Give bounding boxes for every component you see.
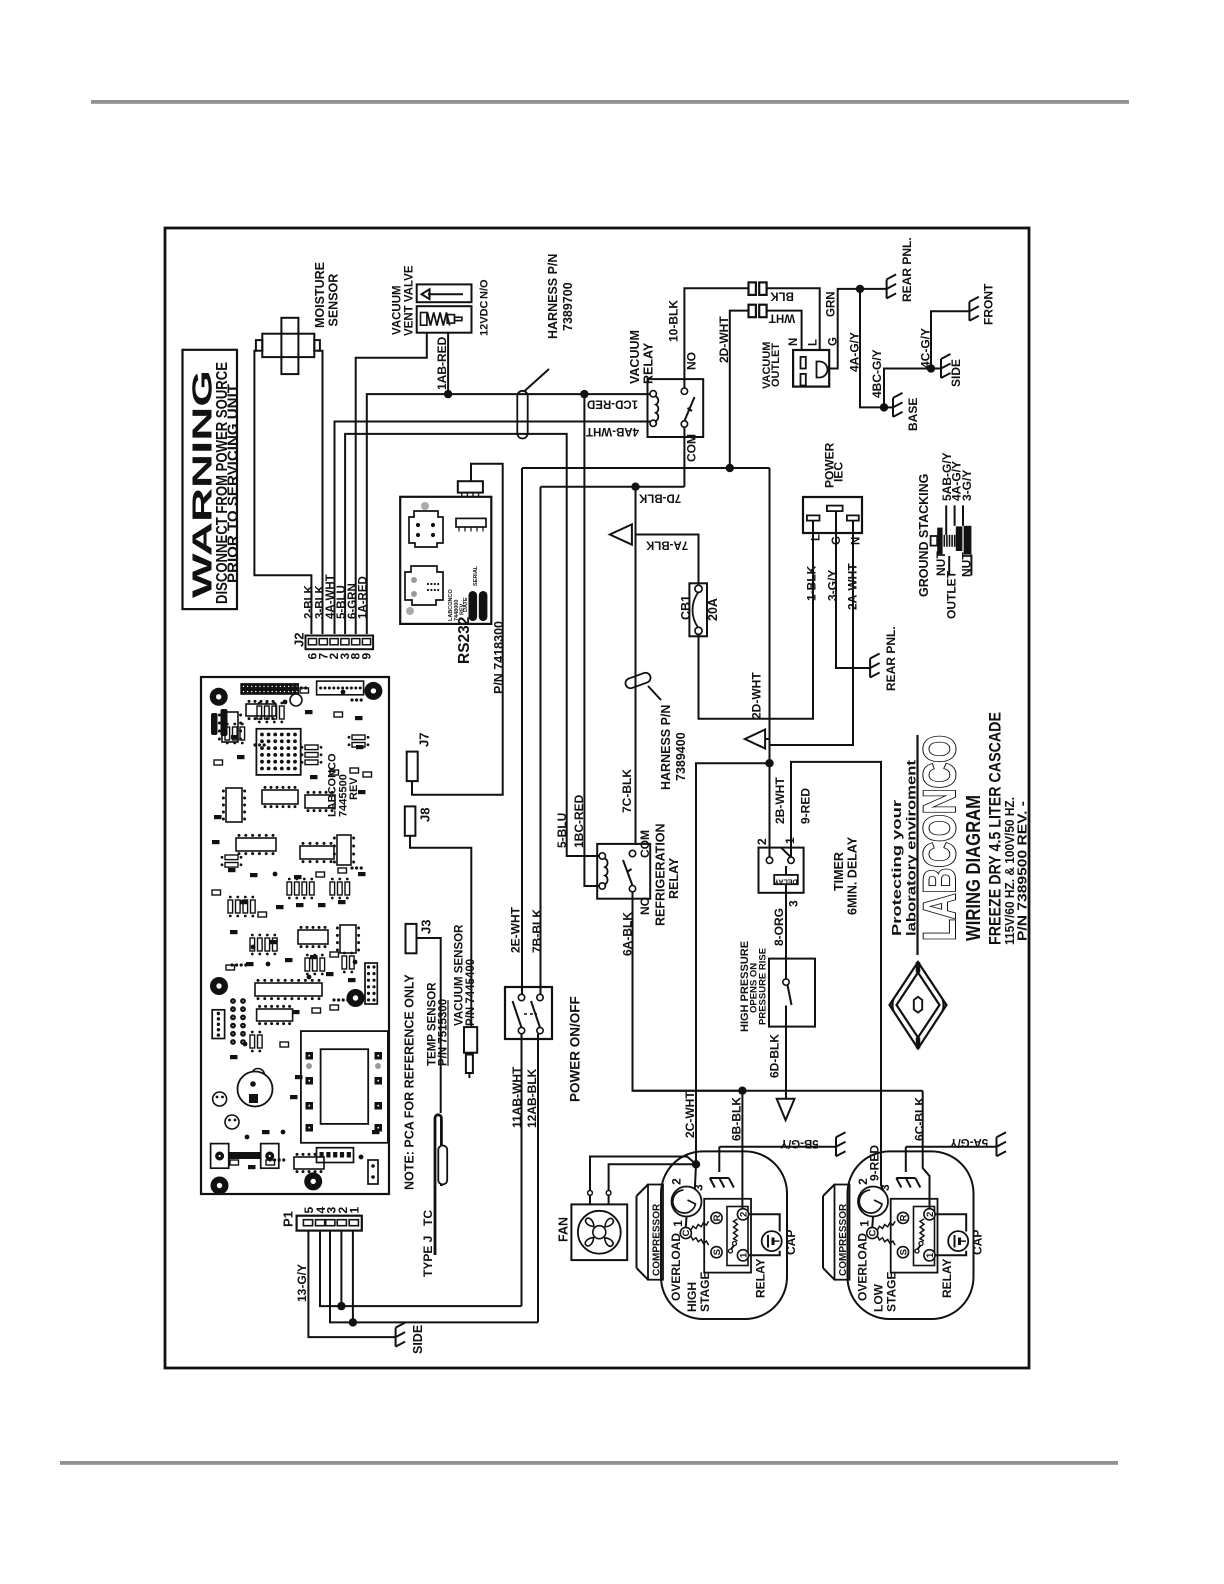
vacuum relay arm	[684, 397, 694, 421]
svg-text:2: 2	[755, 838, 769, 845]
wire P1 pin3 to 12AB	[330, 1231, 538, 1323]
svg-text:5A-G/Y: 5A-G/Y	[950, 1136, 989, 1148]
wire 2A-WHT from IEC N	[770, 521, 854, 745]
svg-text:2E-WHT: 2E-WHT	[509, 906, 523, 953]
wire 9-RED timer to low stage	[791, 762, 886, 1196]
svg-text:TYPE J: TYPE J	[421, 1236, 435, 1277]
svg-text:TC: TC	[421, 1210, 435, 1226]
svg-text:N: N	[851, 537, 863, 545]
relay switch	[919, 1242, 923, 1246]
wire P1 pin4 to 11AB	[320, 1231, 522, 1307]
wire 6C-BLK	[923, 1091, 930, 1209]
svg-text:OUTLET: OUTLET	[945, 570, 959, 619]
wire 2D-WHT vertical to arrow	[769, 468, 771, 763]
wire 4C-G/Y up	[931, 311, 969, 368]
svg-text:1A-RED: 1A-RED	[358, 576, 370, 619]
wire 4A-G/Y down	[860, 289, 884, 408]
svg-text:FRONT: FRONT	[982, 283, 996, 325]
svg-text:COM: COM	[685, 434, 699, 462]
compressor barrel HIGH STAGE	[661, 1151, 787, 1319]
svg-text:12AB-BLK: 12AB-BLK	[525, 1068, 539, 1128]
wire to rear panel ground	[860, 288, 887, 290]
wire P1 pin2	[340, 1231, 342, 1307]
wire to side ground	[931, 368, 941, 370]
PCB top-left bars	[211, 713, 218, 735]
svg-text:7B-BLK: 7B-BLK	[530, 909, 544, 953]
svg-text:P/N 7389500 REV. -: P/N 7389500 REV. -	[1015, 801, 1030, 941]
wire 6D-BLK	[785, 1027, 787, 1099]
wire 7D-BLK line	[541, 486, 685, 488]
power switch S1	[505, 987, 552, 1039]
PCB left 5-hole connector	[212, 1010, 224, 1039]
svg-text:6C-BLK: 6C-BLK	[913, 1097, 927, 1141]
harness sleeve oval 7389400	[624, 671, 652, 689]
svg-text:REFRIGERATION: REFRIGERATION	[654, 823, 668, 926]
connector J3	[406, 924, 417, 953]
svg-text:REAR PNL.: REAR PNL.	[900, 237, 914, 302]
PCB terminal blocks bottom-left	[211, 1144, 229, 1169]
node junction rail1 to trunk1	[580, 390, 588, 398]
svg-text:N/O: N/O	[479, 279, 491, 299]
compressor motor circle	[672, 1187, 702, 1217]
terminal S	[897, 1247, 908, 1258]
vacuum vent valve V1 arrow section	[417, 284, 472, 302]
svg-text:1: 1	[738, 1252, 749, 1258]
circuit breaker CB1	[689, 583, 707, 636]
run capacitor	[749, 1214, 780, 1231]
fan leads	[588, 1191, 593, 1196]
svg-text:IEC: IEC	[832, 462, 846, 482]
wire 1-BLK CB1 to IEC L	[699, 521, 814, 719]
svg-text:DATE: DATE	[463, 597, 469, 612]
timer TD1	[759, 848, 804, 893]
svg-text:REV: REV	[348, 777, 360, 800]
PCB dot clusters	[290, 686, 293, 689]
compressor tag	[648, 1185, 663, 1280]
svg-text:1-BLK: 1-BLK	[805, 565, 819, 601]
wire 11AB-WHT	[521, 1034, 523, 1306]
run capacitor	[935, 1214, 966, 1231]
ground SIDE bottom	[396, 1323, 406, 1347]
high pressure switch	[769, 959, 815, 1027]
vacuum relay coil	[650, 391, 656, 397]
PCB P1 footprint	[317, 1148, 354, 1163]
vacuum sensor bulb	[464, 1027, 477, 1053]
svg-text:4AB-WHT: 4AB-WHT	[586, 425, 639, 437]
svg-text:1BC-RED: 1BC-RED	[572, 794, 586, 848]
svg-text:SERIAL: SERIAL	[473, 565, 479, 586]
svg-text:NOTE: PCA FOR REFERENCE ONLY: NOTE: PCA FOR REFERENCE ONLY	[403, 974, 417, 1190]
PCB transistors	[213, 1092, 227, 1106]
RS232 RJ jack upper	[409, 511, 443, 547]
start relay box	[704, 1199, 751, 1273]
compressor tag	[835, 1185, 850, 1280]
wire 2E-WHT trunk	[521, 468, 523, 997]
vacuum relay K1 box	[648, 379, 704, 437]
svg-text:R: R	[712, 1214, 723, 1221]
wire 6A-BLK	[633, 892, 743, 1091]
relay resistor	[734, 1219, 738, 1241]
wire 7C-BLK trunk	[635, 487, 637, 845]
svg-text:J7: J7	[417, 733, 432, 747]
svg-text:STAGE: STAGE	[884, 1272, 898, 1312]
PCB top header strips	[240, 683, 299, 695]
ground BASE	[893, 393, 903, 417]
svg-text:6A-BLK: 6A-BLK	[621, 912, 635, 956]
svg-text:SIDE: SIDE	[949, 359, 963, 387]
svg-text:P/N 7445400: P/N 7445400	[465, 959, 477, 1026]
svg-text:NUT: NUT	[960, 552, 974, 577]
wire 6B-BLK	[741, 1091, 743, 1209]
svg-text:L: L	[807, 339, 819, 346]
svg-text:RELAY: RELAY	[667, 857, 681, 899]
refrigeration relay K2	[597, 844, 650, 899]
svg-text:6B-BLK: 6B-BLK	[730, 1097, 744, 1141]
overload heaters zigzag	[877, 1221, 895, 1230]
svg-text:RS232: RS232	[456, 617, 473, 664]
relay terminal 2	[737, 1209, 748, 1220]
wire 10-BLK relay NO up	[684, 288, 748, 388]
PCB pair-dot stack	[230, 998, 236, 1004]
svg-text:7A-BLK: 7A-BLK	[645, 539, 688, 551]
svg-text:5-BLU: 5-BLU	[555, 813, 569, 848]
vacuum outlet receptacle	[793, 350, 829, 387]
wire 4A/4AB-WHT rail	[335, 422, 651, 635]
svg-text:RELAY: RELAY	[642, 342, 656, 384]
svg-text:VACUUM SENSOR: VACUUM SENSOR	[454, 924, 466, 1026]
node junction 2D on line C	[726, 464, 734, 472]
svg-text:VENT VALVE: VENT VALVE	[404, 265, 416, 336]
svg-text:12VDC: 12VDC	[479, 300, 491, 336]
wire moisture sensor right lead	[318, 351, 323, 634]
wire J8 to vacuum sensor	[410, 836, 471, 1027]
svg-text:3: 3	[692, 1184, 706, 1191]
compressor barrel LOW STAGE	[848, 1151, 974, 1319]
svg-text:2: 2	[856, 1178, 870, 1185]
svg-text:P1: P1	[281, 1211, 296, 1227]
svg-text:COMPRESSOR: COMPRESSOR	[652, 1203, 663, 1276]
ground REAR PNL.	[887, 274, 897, 298]
svg-text:7389700: 7389700	[561, 282, 575, 331]
svg-text:4BC-G/Y: 4BC-G/Y	[870, 349, 884, 398]
RS232 board	[400, 497, 491, 624]
terminal C	[685, 1217, 688, 1228]
svg-text:S: S	[712, 1249, 723, 1255]
connector J8	[405, 806, 416, 835]
svg-text:BLK: BLK	[769, 290, 793, 302]
ground SIDE	[941, 354, 951, 378]
moisture sensor MS1	[262, 334, 314, 357]
svg-text:VACUUM: VACUUM	[628, 330, 642, 384]
ground stacking callouts	[945, 505, 947, 534]
warning box	[183, 350, 238, 609]
node junction 7D	[631, 483, 639, 491]
connector P1	[297, 1216, 362, 1231]
svg-text:13-G/Y: 13-G/Y	[295, 1264, 309, 1302]
wire 2C-WHT	[696, 763, 770, 1164]
relay resistor	[920, 1219, 924, 1241]
svg-text:CB1: CB1	[679, 595, 693, 620]
wire 1A-RED rail	[367, 394, 650, 634]
svg-text:REAR PNL.: REAR PNL.	[884, 626, 898, 691]
wire 1AB-RED valve right lead	[447, 333, 449, 394]
wire WHT jumper to outlet N	[767, 311, 802, 350]
svg-text:DELAY: DELAY	[774, 878, 797, 885]
node ground junction A	[856, 285, 864, 293]
wire to base ground	[884, 406, 893, 408]
overload heaters zigzag	[691, 1221, 709, 1230]
svg-text:FAN: FAN	[557, 1217, 571, 1242]
wire 12AB-BLK	[537, 1034, 539, 1323]
ground inside barrel	[718, 1147, 720, 1172]
ground REAR PNL 2	[870, 654, 880, 678]
PCB main board	[201, 677, 389, 1194]
svg-text:SENSOR: SENSOR	[327, 274, 341, 327]
svg-text:R: R	[898, 1214, 909, 1221]
terminal S	[711, 1247, 722, 1258]
node ground junction B	[880, 403, 888, 411]
wire 7B-BLK trunk	[540, 487, 542, 997]
wire P1 pin5 13-G/Y to side ground	[308, 1231, 395, 1338]
svg-text:2: 2	[738, 1212, 749, 1217]
RS232 dither pads	[421, 502, 429, 510]
wire moisture sensor left lead	[254, 351, 311, 634]
PCB QFP U7	[256, 729, 300, 775]
svg-text:9: 9	[360, 653, 374, 660]
wire 2B-WHT	[769, 763, 771, 860]
svg-text:NO: NO	[685, 352, 699, 370]
svg-text:2D-WHT: 2D-WHT	[750, 672, 764, 719]
PCB mounting holes	[210, 688, 228, 706]
svg-text:P/N 7418300: P/N 7418300	[492, 621, 506, 694]
timer DELAY box	[774, 875, 798, 884]
vacuum relay contacts	[681, 388, 687, 394]
svg-text:CAP: CAP	[971, 1230, 985, 1255]
RS232 header J5	[456, 518, 486, 527]
svg-text:HARNESS P/N: HARNESS P/N	[659, 705, 673, 790]
svg-text:3-G/Y: 3-G/Y	[960, 470, 974, 501]
svg-text:N: N	[788, 338, 800, 346]
wire J7 stub	[411, 781, 413, 795]
svg-text:1: 1	[925, 1252, 936, 1258]
svg-text:POWER ON/OFF: POWER ON/OFF	[568, 996, 583, 1102]
ground wire 5-G/Y	[719, 1146, 836, 1148]
svg-text:2: 2	[670, 1178, 684, 1185]
terminal C	[871, 1217, 874, 1228]
PCB LCD block	[301, 1031, 388, 1143]
svg-text:3-G/Y: 3-G/Y	[826, 570, 840, 601]
disconnect jumper WHT	[749, 305, 756, 318]
drawing border frame	[165, 228, 1029, 1368]
connector J7	[407, 752, 418, 782]
arrow 6D-BLK down	[777, 1099, 795, 1120]
svg-text:7C-BLK: 7C-BLK	[620, 769, 634, 813]
svg-text:3: 3	[878, 1184, 892, 1191]
svg-text:OVERLOAD: OVERLOAD	[856, 1233, 870, 1301]
compressor motor circle	[858, 1187, 888, 1217]
svg-text:2D-WHT: 2D-WHT	[717, 316, 731, 363]
ground stacking bolt	[931, 536, 938, 546]
logo rule line	[916, 735, 918, 955]
svg-text:GRN: GRN	[826, 291, 838, 317]
svg-text:MOISTURE: MOISTURE	[313, 262, 327, 328]
svg-text:HARNESS P/N: HARNESS P/N	[546, 254, 560, 339]
svg-text:6MIN. DELAY: 6MIN. DELAY	[846, 836, 860, 915]
svg-text:STAGE: STAGE	[698, 1272, 712, 1312]
svg-text:11AB-WHT: 11AB-WHT	[510, 1066, 524, 1128]
relay terminal 2	[924, 1209, 935, 1220]
svg-text:1: 1	[783, 837, 797, 844]
svg-text:LABCONCO: LABCONCO	[914, 735, 965, 941]
PCB right edge connectors	[365, 963, 377, 1004]
start relay box	[891, 1199, 938, 1273]
svg-text:S: S	[898, 1249, 909, 1255]
svg-text:7D-BLK: 7D-BLK	[638, 492, 681, 504]
harness callout 2	[648, 686, 661, 700]
svg-text:9-RED: 9-RED	[799, 788, 813, 824]
wire line C net2	[522, 467, 770, 469]
page top rule	[91, 100, 1129, 104]
svg-text:PRESSURE RISE: PRESSURE RISE	[758, 948, 769, 1025]
node junction pin1	[349, 1318, 357, 1326]
fan	[571, 1204, 627, 1260]
svg-text:VACUUM: VACUUM	[392, 285, 404, 335]
svg-text:SIDE: SIDE	[411, 1325, 425, 1354]
temp sensor thermowell	[435, 1115, 441, 1255]
svg-text:2A-WHT: 2A-WHT	[846, 563, 860, 610]
PCB small parts scatter	[231, 735, 239, 739]
node ground junction C	[927, 364, 935, 372]
wire bus 6 net	[633, 1090, 923, 1092]
svg-text:Protecting your: Protecting your	[889, 800, 904, 936]
disconnect jumper BLK	[749, 282, 756, 295]
node junction 6B	[738, 1087, 746, 1095]
wire BLK jumper to outlet L	[767, 288, 820, 350]
svg-text:10-BLK: 10-BLK	[667, 300, 681, 342]
ground FRONT	[969, 297, 979, 321]
svg-text:7389400: 7389400	[674, 732, 688, 781]
arrow 2D-WHT	[745, 730, 765, 749]
svg-text:COMPRESSOR: COMPRESSOR	[838, 1203, 849, 1276]
svg-text:4C-G/Y: 4C-G/Y	[919, 328, 933, 368]
node junction net2 hub	[765, 759, 773, 767]
svg-text:1: 1	[348, 1207, 362, 1214]
terminal R	[711, 1212, 722, 1223]
PCB DIP packages	[222, 712, 238, 742]
svg-text:2B-WHT: 2B-WHT	[773, 777, 787, 824]
svg-text:CAP: CAP	[784, 1230, 798, 1255]
ground wire 5-G/Y	[906, 1146, 997, 1148]
svg-text:1: 1	[671, 1220, 685, 1227]
wire 7A-BLK to CB1	[636, 535, 699, 585]
node junction fan/2C	[692, 1160, 700, 1168]
PCB electrolytic cap	[238, 1072, 273, 1107]
svg-text:J2: J2	[292, 633, 307, 647]
svg-text:6D-BLK: 6D-BLK	[768, 1034, 782, 1078]
svg-text:2: 2	[925, 1212, 936, 1217]
logo diamond	[890, 962, 947, 1049]
wire 2D-WHT jumper left branch	[730, 311, 749, 468]
svg-text:9-RED: 9-RED	[868, 1145, 882, 1181]
wire 5-BLU rail	[345, 434, 599, 856]
wire valve left lead to J2 pin8 net	[356, 333, 427, 634]
harness callout line	[525, 369, 549, 391]
wire GRN outlet ground	[829, 289, 860, 369]
svg-text:RELAY: RELAY	[940, 1258, 954, 1298]
wire P1 pin1	[352, 1231, 354, 1323]
svg-text:OVERLOAD: OVERLOAD	[669, 1233, 683, 1301]
svg-text:8-ORG: 8-ORG	[772, 908, 786, 946]
svg-text:1CD-RED: 1CD-RED	[587, 398, 638, 410]
relay terminal 1	[737, 1250, 748, 1261]
PCB resistor clusters	[225, 727, 230, 740]
page bottom rule	[60, 1461, 1118, 1465]
wire 4BC-G/Y up	[884, 369, 931, 408]
svg-text:WARNING: WARNING	[187, 370, 218, 598]
RS232 RJ jack lower	[405, 566, 443, 605]
node junction 1AB on rail 1	[444, 390, 452, 398]
svg-text:WIRING DIAGRAM: WIRING DIAGRAM	[963, 795, 985, 941]
terminal R	[897, 1212, 908, 1223]
svg-text:WHT: WHT	[769, 311, 795, 323]
wire trunk 1BC-RED	[584, 394, 599, 886]
svg-text:4A-G/Y: 4A-G/Y	[848, 332, 862, 372]
wire 3-G/Y IEC G to rear panel ground	[836, 511, 870, 668]
node junction pin2	[337, 1302, 345, 1310]
svg-text:1: 1	[858, 1220, 872, 1227]
svg-text:20A: 20A	[706, 598, 720, 621]
header J1 above board	[458, 481, 483, 492]
wire relay COM down to 7D	[683, 427, 685, 487]
ground inside barrel	[905, 1147, 907, 1172]
svg-text:GROUND STACKING: GROUND STACKING	[917, 474, 931, 597]
svg-text:J3: J3	[419, 920, 434, 934]
svg-text:BASE: BASE	[906, 398, 920, 431]
svg-text:OUTLET: OUTLET	[770, 343, 782, 387]
relay switch	[733, 1242, 737, 1246]
connector J2	[306, 636, 374, 650]
wire J3 to temp sensor	[417, 938, 441, 1113]
svg-text:2C-WHT: 2C-WHT	[683, 1091, 697, 1138]
svg-text:J8: J8	[418, 808, 433, 822]
svg-text:5B-G/Y: 5B-G/Y	[780, 1137, 819, 1149]
svg-text:PRIOR TO SERVICING UNIT: PRIOR TO SERVICING UNIT	[226, 384, 242, 583]
wire J7 to RS232 J1	[412, 464, 503, 795]
svg-text:1AB-RED: 1AB-RED	[435, 336, 449, 390]
svg-text:3: 3	[787, 900, 801, 907]
svg-text:RELAY: RELAY	[754, 1258, 768, 1298]
svg-text:TIMER: TIMER	[832, 852, 846, 891]
svg-text:L: L	[811, 534, 823, 541]
svg-text:NO: NO	[638, 897, 652, 915]
harness sleeve oval 7389700	[517, 391, 527, 439]
svg-text:COM: COM	[638, 830, 652, 858]
power inlet IEC	[803, 497, 862, 533]
vacuum vent valve V1 coil section	[417, 306, 472, 333]
wire 8-ORG	[785, 884, 787, 958]
relay terminal 1	[924, 1250, 935, 1261]
arrow 7A-BLK	[610, 524, 632, 544]
